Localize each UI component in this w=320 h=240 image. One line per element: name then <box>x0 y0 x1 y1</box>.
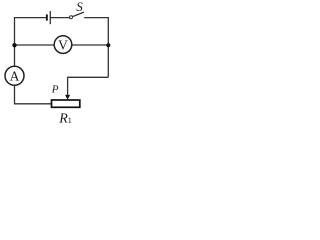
wiper arrowhead P <box>65 95 70 100</box>
battery cell (short thick negative bar) <box>46 14 48 20</box>
wire wiper vertical <box>67 77 69 96</box>
svg-text:A: A <box>10 69 20 84</box>
rheostat R1 body <box>52 100 80 107</box>
svg-text:P: P <box>51 84 59 96</box>
svg-text:R: R <box>58 111 68 125</box>
switch S arm <box>73 12 85 17</box>
wire battery to switch <box>51 17 70 19</box>
ammeter circle <box>5 66 24 85</box>
switch S pivot circle <box>70 16 73 19</box>
wire right corner to wiper <box>68 76 109 78</box>
svg-text:S: S <box>76 0 83 14</box>
svg-text:V: V <box>58 37 68 52</box>
node junction dot right <box>106 43 110 47</box>
wire top-left to battery <box>15 18 47 45</box>
svg-text:1: 1 <box>68 116 72 125</box>
node junction dot left <box>12 43 16 47</box>
battery cell (long thin positive plate) <box>50 11 51 24</box>
voltmeter U-V circle <box>54 36 72 54</box>
wire switch to top-right corner and down right side <box>84 18 108 78</box>
wire ammeter to bottom corner to rheostat <box>15 85 52 104</box>
wire voltmeter left <box>15 44 55 46</box>
wire left side junction to ammeter <box>14 45 16 66</box>
wire voltmeter right <box>72 44 109 46</box>
